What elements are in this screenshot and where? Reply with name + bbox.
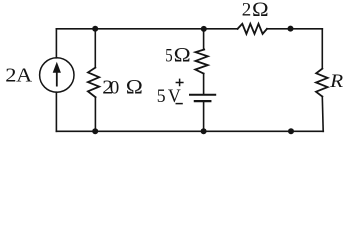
svg-text:R: R: [329, 71, 343, 92]
svg-text:2: 2: [242, 0, 252, 21]
svg-text:5: 5: [157, 85, 166, 106]
svg-text:2: 2: [5, 64, 16, 87]
svg-text:Ω: Ω: [126, 76, 144, 99]
svg-text:Ω: Ω: [173, 44, 191, 67]
svg-text:A: A: [16, 64, 33, 87]
svg-text:Ω: Ω: [252, 0, 269, 21]
svg-text:0: 0: [110, 77, 120, 98]
svg-text:V: V: [168, 85, 182, 106]
svg-text:5: 5: [165, 45, 172, 66]
